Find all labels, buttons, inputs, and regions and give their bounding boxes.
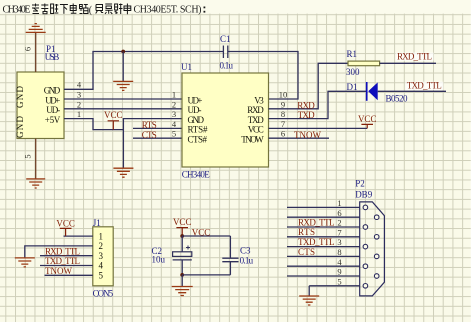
svg-text:5: 5: [172, 129, 176, 139]
ground (below P2 pin5): [299, 296, 319, 305]
wire P2 pin 4: [287, 265, 360, 267]
svg-text:TNOW: TNOW: [241, 135, 264, 145]
diode D1 B0520: [347, 82, 409, 104]
svg-text:RXD_TTL: RXD_TTL: [45, 246, 80, 256]
svg-text:TXD_TTL: TXD_TTL: [298, 237, 335, 247]
svg-text:2: 2: [172, 99, 176, 109]
resistor R1: [346, 49, 380, 77]
svg-text:VCC: VCC: [104, 110, 123, 120]
op-amp U1 CH340E body: [181, 62, 269, 180]
svg-text:GND: GND: [15, 116, 25, 139]
svg-text:TXD: TXD: [248, 115, 265, 125]
svg-text:1: 1: [337, 198, 341, 208]
svg-text:0.1u: 0.1u: [220, 61, 234, 71]
svg-text:6: 6: [337, 208, 341, 218]
svg-text:3: 3: [172, 109, 176, 119]
J1 inside pin numbers: [99, 231, 104, 280]
svg-text:2: 2: [77, 99, 81, 109]
wire TXD from U1 pin8 to D1: [269, 91, 367, 118]
wire P2 pin 5: [309, 285, 360, 287]
ground (at J1 pin2): [15, 258, 35, 267]
svg-text:P2: P2: [355, 178, 365, 188]
svg-text:5: 5: [99, 271, 104, 281]
U1 right pin numbers: [279, 90, 288, 139]
svg-text:RXD_TTL: RXD_TTL: [298, 217, 335, 227]
wire ground stem at x=123: [122, 52, 124, 82]
svg-text:D1: D1: [347, 82, 358, 92]
svg-text:10u: 10u: [152, 255, 166, 265]
svg-text:5: 5: [23, 154, 33, 158]
wire UD- row P1 pin2 to U1 pin2: [64, 108, 182, 110]
svg-text:7: 7: [281, 119, 285, 129]
svg-text:GND: GND: [188, 115, 205, 125]
U1 left pin numbers: [172, 90, 177, 139]
svg-text:C3: C3: [240, 245, 251, 255]
capacitor C3: [222, 236, 253, 275]
svg-text:10: 10: [279, 90, 288, 100]
svg-text:3: 3: [77, 90, 81, 100]
svg-text:RTS: RTS: [142, 120, 157, 130]
wire J1 pin3: [40, 255, 93, 257]
net label TXD_TTL: [405, 82, 443, 90]
svg-text:V3: V3: [254, 95, 264, 105]
P1 rotated pin names GND GND: [15, 86, 25, 139]
U1 right pin names: [241, 95, 264, 144]
svg-text:3: 3: [99, 251, 104, 261]
svg-text:VCC: VCC: [173, 217, 192, 227]
svg-text:5: 5: [337, 276, 341, 286]
ground (top-left, inverted): [26, 24, 46, 33]
ground (under GND rail): [113, 81, 133, 90]
svg-text:VCC: VCC: [56, 218, 75, 228]
connector P2 DB9 shell: [355, 178, 384, 296]
svg-text:B0520: B0520: [386, 94, 409, 104]
svg-text:UD-: UD-: [46, 105, 60, 115]
svg-text:TXD_TTL: TXD_TTL: [45, 256, 80, 266]
svg-text:USB: USB: [45, 52, 60, 62]
svg-text:UD+: UD+: [188, 95, 203, 105]
wire ground stem below C2: [181, 275, 183, 286]
wire J1 pin2 to ground: [25, 246, 93, 258]
junction dot on GND rail: [121, 50, 125, 54]
wire UD+ row P1 pin3 to U1 pin1: [64, 98, 182, 100]
P2 pin numbers: [337, 198, 342, 286]
right edge white strip: [471, 0, 474, 322]
wire VCC rail C2 to C3: [182, 235, 230, 237]
svg-text:2: 2: [337, 218, 341, 228]
ground (below P1 pin5): [26, 179, 45, 188]
svg-text:TNOW: TNOW: [45, 266, 73, 276]
svg-text:7: 7: [337, 227, 341, 237]
svg-text:0.1u: 0.1u: [240, 255, 254, 265]
connector J1 body: [93, 218, 114, 299]
P2 net labels: [298, 217, 335, 256]
P2 pin circles left column 1-5: [363, 205, 368, 288]
svg-text:RTS: RTS: [298, 227, 315, 237]
svg-text:TXD_TTL: TXD_TTL: [407, 81, 442, 91]
svg-text:3: 3: [337, 237, 341, 247]
top band (no grid): [0, 0, 474, 14]
svg-text:GND: GND: [44, 86, 61, 96]
P1 pin numbers 4 3 2 1: [77, 80, 82, 119]
svg-text:CH340E5T. SCH): CH340E5T. SCH): [134, 5, 202, 16]
wire J1 pin1: [64, 235, 93, 237]
P2 pin circles right column 6-9: [374, 215, 379, 278]
P1 pin 5 (bottom GND pin): [23, 139, 36, 179]
svg-text:RXD_TTL: RXD_TTL: [397, 51, 432, 61]
svg-text:+5V: +5V: [45, 115, 61, 125]
svg-text:CTS#: CTS#: [188, 135, 208, 145]
svg-text:TXD: TXD: [298, 110, 316, 120]
svg-text:6: 6: [23, 47, 33, 51]
wire D1 to TXD_TTL: [378, 90, 446, 92]
ground (under U1 pin3): [113, 168, 133, 177]
connector P1 body: [17, 44, 64, 139]
svg-text:1: 1: [172, 90, 176, 100]
wire P2 pin 2: [287, 226, 360, 228]
U1 left pin names: [188, 95, 209, 144]
svg-text:UD+: UD+: [45, 95, 60, 105]
wire GND rail C2 to C3: [182, 274, 230, 276]
svg-text:CTS: CTS: [142, 130, 157, 140]
svg-text:8: 8: [281, 109, 285, 119]
svg-text:1: 1: [77, 109, 81, 119]
wire J1 pin5: [45, 274, 93, 276]
wire +5V from P1 pin1 dip to VCC port: [64, 119, 123, 130]
P1 right pin names: [44, 86, 61, 125]
svg-text:300: 300: [346, 67, 360, 77]
wire U1 GND pin3 left and down: [123, 119, 182, 168]
junction dot C2 top: [180, 234, 184, 238]
capacitor C2 (polarized): [152, 236, 192, 275]
svg-text:UD-: UD-: [188, 105, 202, 115]
svg-text:RXD: RXD: [247, 105, 264, 115]
wire P2 pin 9: [287, 275, 360, 277]
svg-text:2: 2: [99, 241, 104, 251]
wire RTS to U1 pin4: [133, 127, 182, 129]
svg-text:CH340E: CH340E: [182, 169, 211, 179]
svg-text:CTS: CTS: [298, 247, 315, 257]
wire RXD from U1 pin9 to R1: [269, 63, 349, 109]
net label RXD_TTL: [396, 53, 434, 61]
P1 pin 6 (top GND pin): [23, 33, 36, 72]
svg-text:RTS#: RTS#: [188, 125, 209, 135]
svg-text:1: 1: [99, 231, 104, 241]
wire U1 TNOW pin6: [269, 137, 330, 139]
svg-text:GND: GND: [15, 86, 25, 109]
wire P2 pin 1: [287, 206, 360, 208]
svg-text:U1: U1: [181, 62, 192, 72]
title text: [3, 5, 206, 16]
svg-text:CH340E: CH340E: [3, 5, 31, 16]
svg-text:8: 8: [337, 247, 341, 257]
svg-text:4: 4: [99, 261, 104, 271]
wire U1 VCC pin7: [269, 127, 368, 129]
svg-text:DB9: DB9: [355, 190, 373, 200]
capacitor C1: [220, 34, 234, 71]
svg-text:6: 6: [281, 129, 285, 139]
svg-text:J1: J1: [93, 218, 101, 228]
svg-text:R1: R1: [347, 49, 358, 59]
wire P2 pin5 to ground: [308, 286, 310, 296]
svg-text:VCC: VCC: [192, 228, 211, 238]
title CJK pseudo-glyphs 参考如下电路 见资料中: [32, 4, 131, 15]
svg-text:CON5: CON5: [93, 289, 114, 299]
wire CTS to U1 pin5: [133, 137, 182, 139]
wire P2 pin 6: [287, 216, 360, 218]
svg-text:VCC: VCC: [358, 114, 377, 124]
ground (below C2): [172, 287, 193, 296]
junction dot C2 bottom: [180, 273, 184, 277]
svg-text:9: 9: [337, 267, 341, 277]
power port VCC (above C2): [173, 217, 192, 236]
wire P2 pin 7: [287, 236, 360, 238]
power port VCC (near P1): [104, 110, 123, 129]
svg-text:C1: C1: [220, 34, 231, 44]
wire P2 pin 3: [287, 246, 360, 248]
wire C1 right to V3 pin10: [228, 52, 298, 100]
wire J1 pin4: [40, 265, 93, 267]
svg-text:TNOW: TNOW: [294, 130, 322, 140]
power port VCC (at U1 pin7): [358, 114, 377, 128]
wire R1 to RXD_TTL: [380, 62, 436, 64]
svg-text:9: 9: [281, 99, 285, 109]
svg-text:RXD: RXD: [297, 100, 315, 110]
svg-text:VCC: VCC: [248, 125, 264, 135]
wire P1 GND pin4 up and across to C1: [64, 52, 223, 90]
wire P2 pin 8: [287, 255, 360, 257]
power port VCC (at J1 pin1): [56, 218, 75, 236]
